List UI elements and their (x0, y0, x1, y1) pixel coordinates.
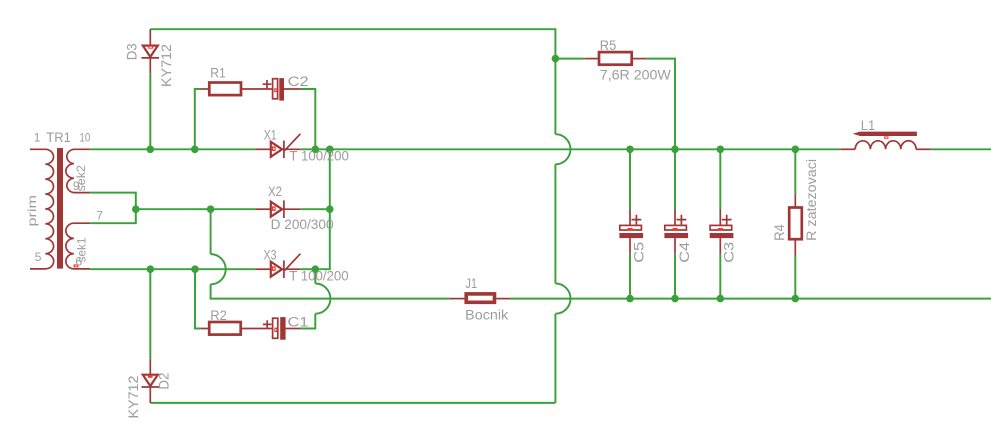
capacitor C2 positive plate (273, 79, 278, 99)
junction C4 bottom bus (671, 295, 679, 303)
capacitor C5 plus sign (632, 215, 642, 225)
wire R2 branch (195, 269, 201, 328)
junction C3 top bus (717, 146, 725, 154)
capacitor C1 plus sign (263, 320, 272, 328)
shunt J1 right stub (496, 298, 510, 300)
svg-text:D2: D2 (157, 373, 172, 390)
svg-text:X2: X2 (268, 184, 282, 199)
diode D2 top pin (149, 359, 151, 375)
capacitor C1 right stub (286, 328, 300, 330)
svg-text:X3: X3 (264, 247, 277, 262)
wire R5 left stub green (555, 58, 584, 60)
capacitor C4 plus sign (677, 215, 687, 225)
diode D3 cathode bar (142, 57, 160, 59)
wire X2 cathode to column (300, 208, 330, 210)
diode D3 triangle (143, 46, 158, 57)
shunt J1 left stub (450, 298, 465, 300)
junction C5 top bus (626, 146, 634, 154)
thyristor X3 triangle (271, 262, 282, 277)
wire C5 top (629, 149, 631, 209)
thyristor X1 gate (285, 134, 301, 151)
capacitor C2 plus sign (263, 80, 272, 88)
junction X3 cathode (312, 265, 320, 273)
wire C4 bottom (674, 254, 676, 299)
junction R1 branch on top bus (191, 146, 199, 154)
diode X2 cathode bar (283, 200, 285, 218)
transformer TR1 origin marker (74, 264, 79, 267)
wire C4 top (674, 149, 676, 209)
junction X2 cathode column (326, 205, 334, 213)
svg-text:7,6R 200W: 7,6R 200W (600, 67, 671, 82)
thyristor X1 left pin (255, 148, 270, 150)
wire R5 right stub to top bus (646, 59, 675, 150)
diode D2 cathode bar (142, 386, 160, 388)
wire D2 anode branch (149, 269, 151, 359)
svg-text:C2: C2 (288, 74, 309, 89)
wire bottom run to D2 cathode (150, 402, 555, 404)
junction R4 top bus (792, 146, 800, 154)
svg-text:sek2: sek2 (74, 165, 88, 192)
thyristor X3 cathode bar (283, 260, 285, 278)
svg-text:KY712: KY712 (126, 376, 141, 419)
junction D2 branch on pin6 row (147, 265, 155, 273)
capacitor C3 origin marker (718, 228, 723, 230)
capacitor C1 origin marker (274, 328, 277, 332)
diode X2 right pin (284, 208, 300, 210)
diode X2 triangle (271, 202, 282, 217)
capacitor C4 bottom pin (674, 238, 676, 254)
junction C3 bottom bus (717, 295, 725, 303)
inductor L1 core bar (853, 132, 917, 136)
wire hop over bottom bus at x=555 (555, 284, 570, 314)
diode D2 triangle (143, 375, 158, 386)
wire D3 cathode branch (149, 73, 151, 149)
wire R5 column between hops (554, 164, 556, 283)
wire top bus from TR1 pin10 to X1 anode (90, 148, 255, 150)
junction center tap (132, 205, 140, 213)
svg-text:D3: D3 (125, 43, 140, 60)
resistor R2 right stub to C1 (241, 328, 273, 330)
svg-text:C3: C3 (721, 242, 736, 263)
svg-text:KY712: KY712 (159, 44, 174, 87)
capacitor C4 origin marker (673, 228, 678, 230)
svg-text:TR1: TR1 (46, 130, 71, 145)
wire C5 bottom (629, 254, 631, 299)
capacitor C2 origin marker (274, 88, 277, 92)
wire R4 top (794, 149, 796, 195)
capacitor C5 negative plate (619, 233, 643, 238)
wire column bus to X2 row (329, 149, 331, 209)
wire R5 column to bottom corner (554, 314, 556, 403)
junction C5 bottom bus (626, 295, 634, 303)
capacitor C1 positive plate (273, 318, 278, 338)
resistor R5 left stub (585, 58, 599, 60)
resistor R5 body (599, 52, 632, 65)
wire C3 top (719, 149, 721, 209)
svg-text:7: 7 (96, 208, 103, 222)
capacitor C4 top pin (674, 210, 676, 226)
svg-text:prim: prim (25, 195, 39, 227)
svg-text:C4: C4 (677, 241, 692, 263)
transformer TR1 sek2 winding (66, 149, 90, 192)
svg-text:1: 1 (34, 130, 41, 144)
junction X2 column on top bus (326, 146, 334, 154)
svg-text:10: 10 (79, 131, 90, 145)
svg-text:sek1: sek1 (75, 237, 89, 262)
svg-text:R2: R2 (210, 308, 227, 323)
diode X2 origin marker (272, 206, 276, 211)
transformer TR1 core (57, 148, 63, 269)
resistor R2 (209, 322, 241, 335)
resistor R4 top pin (794, 195, 796, 208)
diode D3 top pin (149, 29, 151, 45)
svg-text:T 100/200: T 100/200 (289, 149, 349, 164)
junction C4 top bus (671, 146, 679, 154)
diode D2 origin marker (148, 375, 153, 378)
svg-text:C5: C5 (632, 242, 647, 263)
wire C1 column to C1 (300, 314, 315, 329)
junction R4 bottom bus (792, 295, 800, 303)
wire hop over top bus at x=555 (555, 134, 570, 164)
wire C1 column upper part (314, 269, 316, 283)
svg-text:R zatezovaci: R zatezovaci (804, 159, 819, 241)
thyristor X1 triangle (271, 142, 282, 157)
shunt J1 body (466, 294, 494, 302)
capacitor C5 positive plate (620, 225, 642, 230)
diode X2 left pin (255, 208, 270, 210)
inductor L1 origin marker (884, 136, 888, 138)
resistor R4 body (789, 208, 802, 240)
svg-text:X1: X1 (264, 127, 277, 142)
junction R5 left (552, 55, 560, 63)
thyristor X1 origin marker (272, 146, 276, 151)
wire X3 cathode to junction (300, 268, 315, 270)
wire bottom bus left to J1 (211, 284, 450, 298)
capacitor C5 origin marker (628, 228, 633, 230)
inductor L1 right stub (916, 148, 931, 150)
capacitor C5 top pin (629, 210, 631, 226)
capacitor C5 bottom pin (629, 238, 631, 254)
capacitor C4 negative plate (664, 233, 688, 238)
resistor R1 (209, 83, 241, 96)
svg-text:R1: R1 (210, 65, 226, 80)
thyristor X3 gate (285, 254, 301, 271)
wire top loop D3 anode to R5 column (150, 29, 555, 58)
wire R1 branch from top bus (195, 89, 201, 149)
capacitor C1 negative plate (280, 317, 285, 340)
wire bottom bus J1 to right edge (510, 298, 991, 300)
resistor R2 left stub (201, 328, 210, 330)
capacitor C3 positive plate (710, 225, 732, 230)
svg-text:C1: C1 (288, 315, 309, 330)
svg-text:5: 5 (35, 250, 42, 264)
wire X2-drop column upper part (210, 209, 212, 254)
junction X2-drop on center tap row (207, 205, 215, 213)
svg-text:R4: R4 (772, 224, 787, 241)
wire TR1 pin9 jog to center tap (90, 193, 136, 210)
capacitor C3 plus sign (722, 215, 732, 225)
svg-text:T 100/200: T 100/200 (289, 269, 349, 284)
wire C2 to X1 cathode branch (300, 89, 315, 149)
wire after L1 to right edge (931, 148, 991, 150)
transformer TR1 primary winding (30, 149, 54, 269)
thyristor X3 right pin (284, 268, 300, 270)
transformer TR1 sek1 winding (66, 223, 90, 269)
capacitor C4 positive plate (665, 225, 687, 230)
resistor R5 right stub (632, 58, 647, 60)
capacitor C2 negative plate (279, 78, 284, 101)
svg-text:L1: L1 (861, 118, 876, 133)
resistor R1 left stub (201, 88, 210, 90)
wire hop over bottom bus at x=315 (315, 284, 330, 314)
diode D2 bottom pin (149, 387, 151, 403)
resistor R1 right stub to C2 (241, 88, 272, 90)
resistor R4 bottom pin (794, 239, 796, 255)
junction at D3 on top bus (147, 146, 155, 154)
inductor L1 left stub (841, 148, 856, 150)
svg-text:Bocnik: Bocnik (465, 308, 508, 323)
wire top bus from X1 cathode to L1 (300, 148, 840, 150)
wire column X2 row down to X3 row (315, 209, 330, 269)
svg-text:R5: R5 (600, 38, 617, 53)
thyristor X3 left pin (255, 268, 270, 270)
diode D3 bottom pin (149, 58, 151, 73)
svg-text:D 200/300: D 200/300 (271, 217, 334, 232)
capacitor C3 negative plate (710, 233, 734, 238)
thyristor X1 cathode bar (283, 141, 285, 159)
wire R5 column down to first hop (554, 59, 556, 135)
wire TR1 pin6 row to X3 anode (90, 268, 255, 270)
wire center tap row to X2 anode (136, 208, 256, 210)
wire TR1 pin7 jog to center tap (90, 209, 136, 223)
inductor L1 winding (855, 141, 916, 150)
thyristor X3 origin marker (272, 266, 276, 271)
diode D3 origin marker (148, 46, 153, 49)
capacitor C3 bottom pin (719, 238, 721, 254)
capacitor C2 right stub (284, 88, 300, 90)
wire hop over X3 row at x=210 (211, 254, 226, 284)
junction C2 column on top bus (312, 146, 320, 154)
wire R4 bottom (794, 255, 796, 299)
svg-text:J1: J1 (465, 276, 477, 291)
junction R2 branch on pin6 row (191, 265, 199, 273)
wire C3 bottom (719, 254, 721, 299)
capacitor C3 top pin (719, 210, 721, 226)
thyristor X1 right pin (284, 148, 300, 150)
